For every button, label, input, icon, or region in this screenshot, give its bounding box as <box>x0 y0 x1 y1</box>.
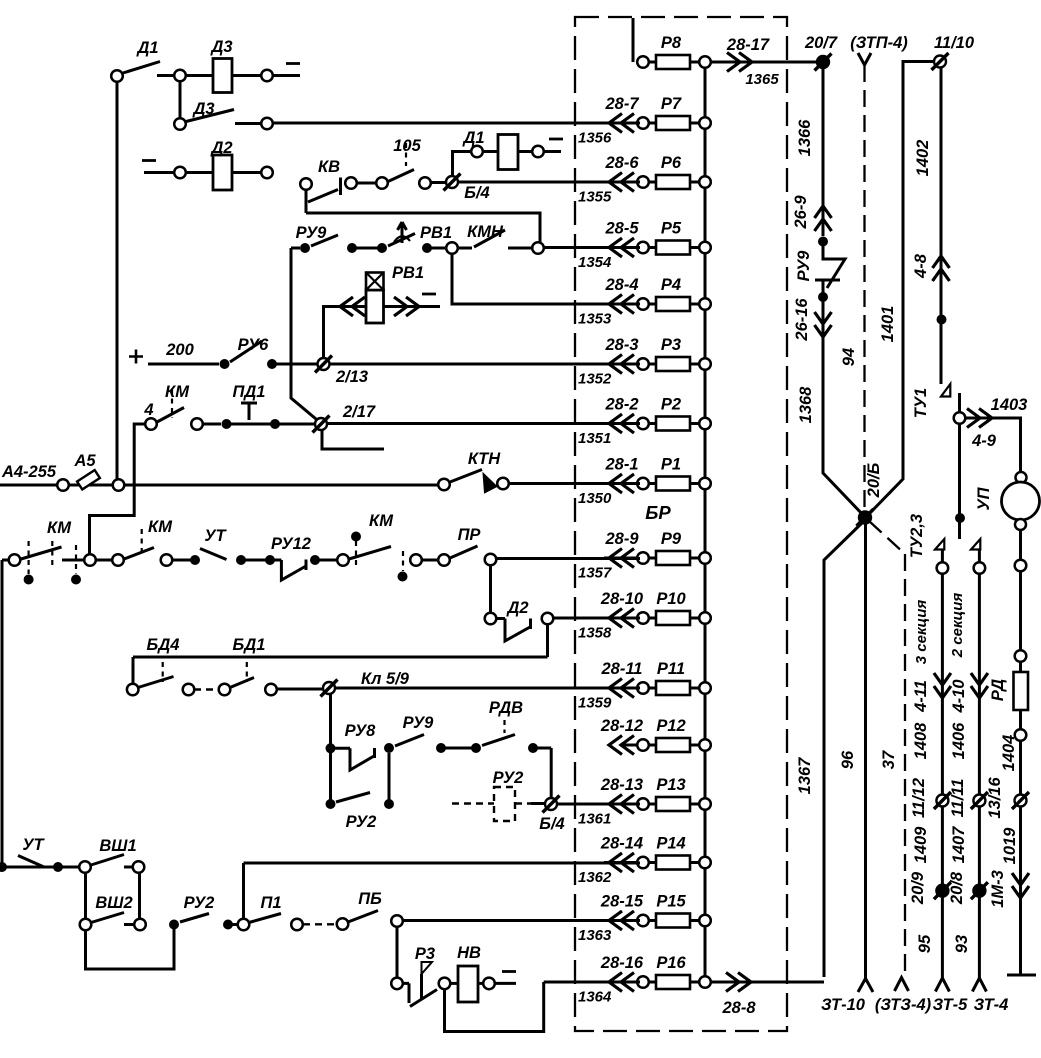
svg-text:Р5: Р5 <box>661 220 682 238</box>
svg-text:БД4: БД4 <box>147 636 180 654</box>
wire <box>427 247 446 250</box>
svg-text:28-3: 28-3 <box>604 336 638 354</box>
svg-text:28-14: 28-14 <box>600 835 643 853</box>
svg-text:ВШ1: ВШ1 <box>99 837 136 855</box>
resistor Р9 <box>609 549 634 568</box>
svg-text:2/17: 2/17 <box>342 403 376 421</box>
svg-text:1352: 1352 <box>578 371 612 388</box>
svg-text:26-16: 26-16 <box>793 298 811 342</box>
svg-text:КМ: КМ <box>148 518 173 536</box>
svg-text:1355: 1355 <box>578 189 612 206</box>
svg-text:94: 94 <box>840 348 858 366</box>
wire <box>441 747 476 750</box>
wire 4-9 <box>958 393 961 412</box>
svg-text:РВ1: РВ1 <box>392 264 424 282</box>
svg-text:ТУ1: ТУ1 <box>912 388 930 418</box>
svg-text:РД: РД <box>989 679 1007 701</box>
svg-text:28-8: 28-8 <box>721 999 756 1017</box>
resistor Р11 <box>609 679 634 698</box>
svg-text:КМН: КМН <box>467 223 504 241</box>
svg-text:2 секция: 2 секция <box>949 593 966 659</box>
svg-text:96: 96 <box>839 750 857 769</box>
contact РУ12 <box>270 560 306 581</box>
contact РУ9 <box>300 243 310 253</box>
contact РУ9 on wire 1366 <box>818 237 828 247</box>
svg-text:КТН: КТН <box>468 450 501 468</box>
wire 1368 <box>823 297 865 517</box>
resistor Р3 <box>609 355 634 374</box>
svg-text:20/7: 20/7 <box>804 34 838 52</box>
node Кл 5/9 <box>323 682 335 694</box>
svg-text:КМ: КМ <box>165 383 190 401</box>
svg-text:Р4: Р4 <box>661 276 681 294</box>
wire to minus <box>273 74 300 77</box>
wire to 28-5 <box>544 246 640 249</box>
contact РВ1 (time-delay) <box>388 234 415 247</box>
svg-text:Р14: Р14 <box>656 835 685 853</box>
wire 1366 <box>822 69 825 237</box>
main left vertical wire <box>116 82 119 480</box>
contact РУ2 <box>326 799 336 809</box>
coil Д2 <box>142 159 156 162</box>
svg-text:13/16: 13/16 <box>986 777 1004 819</box>
svg-text:ТУ2,3: ТУ2,3 <box>908 514 926 558</box>
contact ПБ <box>348 911 378 923</box>
node 20/8 <box>973 885 985 897</box>
svg-text:БД1: БД1 <box>233 636 266 654</box>
svg-text:НВ: НВ <box>457 944 481 962</box>
resistor Р15 <box>609 911 634 930</box>
svg-text:РВ1: РВ1 <box>420 224 452 242</box>
svg-text:УП: УП <box>975 486 993 510</box>
svg-text:Д3: Д3 <box>191 100 214 118</box>
svg-text:УТ: УТ <box>22 836 45 854</box>
svg-text:28-17: 28-17 <box>726 36 770 54</box>
svg-text:Д1: Д1 <box>135 39 158 57</box>
svg-text:1407: 1407 <box>950 826 968 864</box>
svg-text:РУ9: РУ9 <box>795 250 813 282</box>
svg-text:4: 4 <box>143 401 153 419</box>
svg-text:1368: 1368 <box>797 386 815 424</box>
wire to 28-3 <box>330 363 640 366</box>
resistor Р13 <box>609 795 634 814</box>
svg-text:28-10: 28-10 <box>600 590 644 608</box>
svg-text:4-11: 4-11 <box>912 680 930 713</box>
node 2/13 <box>318 358 330 370</box>
wire <box>157 74 174 77</box>
svg-text:ПД1: ПД1 <box>233 383 266 401</box>
wire 1401 <box>869 62 934 515</box>
dashed enclosure box БР <box>575 17 787 1031</box>
wire hook to 28-16 <box>445 982 641 1032</box>
svg-text:28-1: 28-1 <box>604 456 638 474</box>
wire to 28-15 <box>403 919 640 922</box>
wire from node 4 down to КМ row <box>90 424 146 556</box>
svg-text:Р9: Р9 <box>661 530 682 548</box>
svg-text:РУ2: РУ2 <box>346 813 377 831</box>
wire to node 2/17 <box>275 423 314 426</box>
svg-text:28-4: 28-4 <box>604 276 638 294</box>
contact Д3 <box>174 118 186 130</box>
svg-text:4-10: 4-10 <box>950 679 968 714</box>
svg-text:1404: 1404 <box>1000 735 1018 772</box>
svg-text:11/12: 11/12 <box>910 778 928 818</box>
svg-text:11/11: 11/11 <box>949 779 967 818</box>
contact КМ <box>157 408 184 423</box>
svg-text:РУ2: РУ2 <box>184 894 215 912</box>
svg-text:1358: 1358 <box>578 625 612 642</box>
svg-text:Р1: Р1 <box>661 456 681 474</box>
node 13/16 <box>1015 795 1027 807</box>
svg-text:РУ8: РУ8 <box>345 722 377 740</box>
svg-text:Р16: Р16 <box>656 954 686 972</box>
contact РУ9 <box>395 735 424 747</box>
svg-text:РУ6: РУ6 <box>238 336 270 354</box>
svg-text:КВ: КВ <box>318 158 340 176</box>
resistor Р7 <box>609 114 634 133</box>
wire РД chain <box>1019 530 1022 560</box>
node 11/11 <box>973 795 985 807</box>
node 20/Б <box>859 512 871 524</box>
svg-text:20/8: 20/8 <box>948 871 966 905</box>
coil Д1 branch <box>453 152 472 177</box>
wire <box>148 363 219 366</box>
node +200 <box>129 350 143 364</box>
resistor Р2 <box>609 414 634 433</box>
svg-text:ЗТ-4: ЗТ-4 <box>974 996 1009 1014</box>
contact ВШ1 <box>91 855 124 866</box>
wire from РУ9 row to node 2/17 <box>291 248 319 422</box>
wire (dashed) <box>194 688 219 690</box>
svg-text:1406: 1406 <box>950 722 968 760</box>
wire 1402 <box>940 68 943 385</box>
svg-text:Д2: Д2 <box>209 139 232 157</box>
fuse А5 <box>69 484 113 487</box>
contact Д1 <box>111 70 123 82</box>
wire <box>1 560 4 867</box>
svg-text:1403: 1403 <box>991 396 1028 414</box>
svg-text:28-6: 28-6 <box>604 154 639 172</box>
svg-text:КМ: КМ <box>47 519 72 537</box>
svg-text:20/9: 20/9 <box>909 871 927 905</box>
wire КВ to КМН junction <box>306 213 540 242</box>
contact ПР <box>450 546 478 558</box>
svg-text:1357: 1357 <box>578 565 612 582</box>
svg-text:2/13: 2/13 <box>335 368 368 386</box>
svg-text:Кл 5/9: Кл 5/9 <box>361 670 410 688</box>
wire <box>315 559 337 562</box>
svg-text:1М-3: 1М-3 <box>989 870 1007 908</box>
svg-text:200: 200 <box>165 341 194 359</box>
svg-text:Б/4: Б/4 <box>464 184 489 202</box>
resistor Р12 <box>609 736 634 755</box>
contact КТН <box>438 479 450 491</box>
svg-text:РУ9: РУ9 <box>296 224 328 242</box>
svg-text:РУ2: РУ2 <box>493 769 524 787</box>
svg-text:1363: 1363 <box>578 927 612 944</box>
node 20/9 <box>936 885 948 897</box>
coil РВ1 <box>324 307 367 359</box>
svg-text:ПР: ПР <box>458 526 482 544</box>
wire down to БД line <box>546 625 549 658</box>
svg-text:1408: 1408 <box>912 722 930 760</box>
wire top БД line <box>133 656 548 659</box>
resistor Р4 <box>609 295 634 314</box>
wire <box>172 559 195 562</box>
svg-text:1356: 1356 <box>578 130 612 147</box>
svg-text:1365: 1365 <box>745 71 779 88</box>
bus wire of resistor block <box>704 62 707 982</box>
node Б/4 <box>446 176 458 188</box>
wire 94 (dashed) <box>863 65 865 513</box>
svg-text:А4-255: А4-255 <box>1 463 57 481</box>
svg-text:1409: 1409 <box>912 826 930 864</box>
svg-text:1351: 1351 <box>578 430 611 447</box>
svg-text:Р11: Р11 <box>657 660 685 678</box>
resistor Р8 <box>633 18 656 62</box>
node 2/17 <box>315 418 327 430</box>
wire to 28-11 <box>336 687 640 690</box>
wire to Б/4 <box>533 748 551 797</box>
svg-text:1359: 1359 <box>578 695 612 712</box>
wire <box>352 247 381 250</box>
svg-text:28-5: 28-5 <box>604 220 639 238</box>
wire to node 2/13 <box>272 363 317 366</box>
svg-text:Р3: Р3 <box>661 336 681 354</box>
wire stub below 2/17 <box>322 430 384 449</box>
svg-text:1366: 1366 <box>796 119 814 157</box>
resistor Р5 <box>609 238 634 257</box>
contact КВ <box>300 178 312 190</box>
svg-text:1019: 1019 <box>1001 827 1019 865</box>
wire to node Кл 5/9 <box>277 688 322 691</box>
svg-text:28-15: 28-15 <box>600 893 644 911</box>
svg-text:ПБ: ПБ <box>358 890 382 908</box>
svg-text:УТ: УТ <box>204 527 227 545</box>
svg-text:РДВ: РДВ <box>489 699 523 717</box>
svg-text:БР: БР <box>645 502 671 523</box>
wire <box>138 873 141 919</box>
svg-text:Д2: Д2 <box>505 599 528 617</box>
resistor Р14 <box>609 853 634 872</box>
svg-text:Р7: Р7 <box>661 95 682 113</box>
svg-text:105: 105 <box>393 137 421 155</box>
svg-text:1350: 1350 <box>578 490 612 507</box>
svg-text:Р13: Р13 <box>656 776 685 794</box>
resistor Р10 <box>609 609 634 628</box>
contact БД4 <box>127 684 139 696</box>
contact КМ (3) <box>351 532 361 542</box>
svg-text:Д3: Д3 <box>209 38 232 56</box>
bottom arrow ends <box>858 979 873 993</box>
svg-text:3 секция: 3 секция <box>913 600 930 665</box>
resistor Р6 <box>609 173 634 192</box>
resistor Р1 <box>609 474 634 493</box>
wire (dashed) <box>303 923 337 925</box>
svg-text:Д1: Д1 <box>461 129 484 147</box>
svg-text:28-12: 28-12 <box>600 717 643 735</box>
svg-text:Р8: Р8 <box>661 34 682 52</box>
contact РУ2 <box>169 920 179 930</box>
wire <box>96 559 112 562</box>
coil РУ2 (dashed) <box>452 802 494 804</box>
svg-text:Р15: Р15 <box>656 893 686 911</box>
svg-text:28-9: 28-9 <box>604 530 639 548</box>
svg-text:А5: А5 <box>73 452 96 470</box>
wire to node Б/4 <box>431 181 445 184</box>
wire <box>241 559 270 562</box>
coil НВ <box>450 982 458 985</box>
svg-text:1364: 1364 <box>578 989 612 1006</box>
wire to 28-1 <box>509 482 640 485</box>
svg-text:1361: 1361 <box>578 811 611 828</box>
svg-text:4-8: 4-8 <box>912 253 930 279</box>
svg-text:ВШ2: ВШ2 <box>95 894 132 912</box>
svg-text:Р2: Р2 <box>661 396 681 414</box>
svg-text:1367: 1367 <box>796 757 814 795</box>
wire 1403 <box>965 418 1021 471</box>
contact РДВ <box>482 735 515 746</box>
contact ВШ2 <box>80 919 92 931</box>
wire to 28-7 <box>235 122 261 125</box>
svg-text:КМ: КМ <box>369 512 394 530</box>
wire <box>357 182 376 185</box>
wire ЗТ-5 branch <box>935 539 944 550</box>
svg-text:Р12: Р12 <box>656 717 685 735</box>
svg-text:РУ12: РУ12 <box>271 535 311 553</box>
svg-text:П1: П1 <box>260 894 281 912</box>
svg-text:РУ9: РУ9 <box>403 714 435 732</box>
contact БД1 <box>230 678 254 688</box>
wire to 28-13 <box>558 803 640 806</box>
contact УТ <box>200 549 227 560</box>
svg-text:(ЗТЗ-4): (ЗТЗ-4) <box>875 996 932 1014</box>
svg-text:93: 93 <box>953 935 971 953</box>
svg-text:28-16: 28-16 <box>600 954 644 972</box>
svg-text:ЗТ-5: ЗТ-5 <box>933 996 969 1014</box>
contact Р3 <box>391 978 403 990</box>
resistor Р16 <box>609 973 634 992</box>
wire to 28-9 <box>496 557 640 560</box>
contact КМН <box>458 247 472 250</box>
wire <box>422 559 438 562</box>
svg-text:ЗТ-10: ЗТ-10 <box>821 996 866 1014</box>
node Б/4 <box>545 798 557 810</box>
wire to 28-6 <box>458 181 640 184</box>
svg-text:28-11: 28-11 <box>601 660 643 678</box>
svg-text:(ЗТП-4): (ЗТП-4) <box>850 34 908 52</box>
svg-text:28-2: 28-2 <box>604 396 638 414</box>
motor УП <box>1016 472 1027 483</box>
svg-text:Р3: Р3 <box>415 945 435 963</box>
svg-text:28-13: 28-13 <box>600 776 643 794</box>
wire <box>179 82 182 120</box>
contact УТ <box>0 862 7 872</box>
svg-text:4-9: 4-9 <box>971 432 997 450</box>
svg-text:Р10: Р10 <box>656 590 686 608</box>
node 28-8 wire <box>711 981 824 984</box>
wire to 28-10 <box>553 617 640 620</box>
wire 37 (dashed) <box>869 521 905 977</box>
wire riser to 28-14 <box>244 863 641 919</box>
contact РУ8 <box>326 743 336 753</box>
wire <box>125 484 438 487</box>
node ТУ1 <box>941 384 950 397</box>
svg-text:1362: 1362 <box>578 869 612 886</box>
svg-text:1401: 1401 <box>879 306 897 343</box>
svg-text:Б/4: Б/4 <box>539 815 564 833</box>
svg-text:95: 95 <box>916 934 934 953</box>
wire down to Д2 <box>489 566 492 614</box>
wire bypass loop <box>86 929 175 969</box>
wire to 28-4 <box>452 254 640 304</box>
contact РУ6 <box>220 359 230 369</box>
wire 96 <box>864 523 867 978</box>
node 11/12 <box>936 795 948 807</box>
svg-text:28-7: 28-7 <box>604 95 639 113</box>
wire 1367 (28-8 riser) <box>824 520 865 977</box>
contact П1 <box>249 914 281 923</box>
contact КМ (2) <box>124 548 154 560</box>
node 28-17 wire to 20/7 <box>711 61 816 64</box>
wire down to Р3 <box>396 927 399 978</box>
coil Д3 <box>186 74 213 77</box>
button ПД1 <box>203 423 221 426</box>
svg-text:11/10: 11/10 <box>934 34 975 52</box>
wire to 28-2 <box>328 422 640 425</box>
svg-text:1353: 1353 <box>578 311 612 328</box>
contact КМ (1) <box>28 541 30 574</box>
svg-text:26-9: 26-9 <box>792 195 810 230</box>
svg-text:37: 37 <box>880 750 898 769</box>
wire down <box>329 694 332 744</box>
wire ЗТ-4 branch <box>971 539 980 550</box>
svg-text:Р6: Р6 <box>661 154 682 172</box>
svg-text:20/Б: 20/Б <box>865 462 883 498</box>
wire down between rows <box>329 753 332 800</box>
svg-text:1402: 1402 <box>914 140 932 177</box>
contact 105 <box>388 170 414 182</box>
svg-text:1354: 1354 <box>578 254 612 271</box>
contact Д2 <box>485 613 497 625</box>
